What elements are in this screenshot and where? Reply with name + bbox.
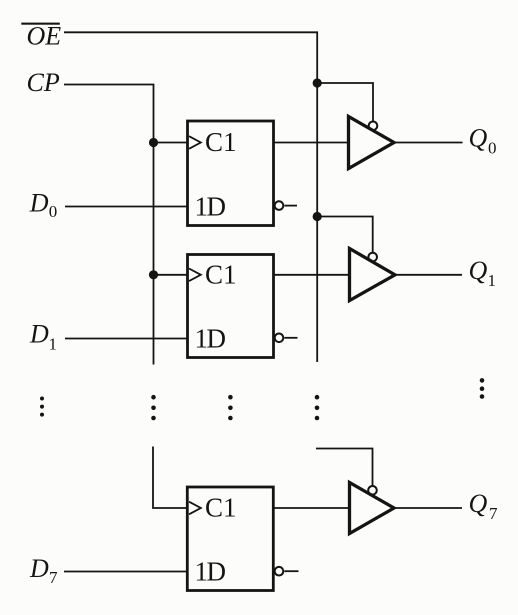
buffer U0 enable bubble — [369, 122, 378, 131]
svg-text:D: D — [29, 554, 49, 583]
wire OE horizontal+vertical — [64, 32, 317, 362]
svg-text:Q: Q — [469, 489, 488, 518]
net D1 label — [29, 320, 57, 354]
wire clock tap to FF1 — [154, 274, 188, 276]
svg-text:7: 7 — [489, 504, 498, 523]
ellipsis column left of D labels — [40, 397, 44, 417]
svg-text:C1: C1 — [205, 259, 237, 289]
net D0 label — [29, 189, 58, 222]
net Q7 label — [469, 489, 499, 523]
ellipsis column OE line — [315, 395, 320, 420]
wire D0 input — [65, 206, 187, 208]
net CP label — [27, 68, 60, 97]
node junction CP-FF1 — [149, 270, 158, 279]
svg-text:D: D — [207, 556, 227, 586]
FF0 label C1 — [205, 127, 237, 157]
tri-state buffer U1 — [350, 249, 396, 301]
node junction OE-buffer0 — [313, 78, 322, 87]
ellipsis column CP line — [151, 395, 156, 420]
wire Q7 output — [394, 507, 462, 509]
wire FF0 Q output — [274, 142, 348, 144]
wire FF1 Q output — [274, 274, 349, 276]
svg-text:D: D — [207, 192, 227, 222]
wire Q0 output — [394, 142, 463, 144]
FF7 clock input triangle — [189, 502, 201, 515]
svg-text:7: 7 — [49, 568, 58, 587]
FF1 inverted output stub — [284, 337, 297, 339]
buffer U1 enable bubble — [368, 253, 377, 262]
FF1 clock input triangle — [189, 269, 201, 282]
node junction CP-FF0 — [149, 138, 158, 147]
svg-text:D: D — [29, 320, 49, 349]
tri-state buffer U7 — [350, 483, 395, 534]
svg-text:0: 0 — [488, 139, 497, 158]
buffer U7 enable bubble — [368, 486, 377, 495]
svg-text:C1: C1 — [205, 493, 237, 523]
svg-text:Q: Q — [469, 256, 488, 285]
net Q1 label — [469, 256, 497, 290]
flip-flop FF0 box — [188, 121, 274, 226]
FF7 inverted output bubble — [275, 567, 284, 576]
svg-text:0: 0 — [49, 202, 58, 221]
ellipsis column Q outputs — [480, 378, 485, 399]
flip-flop FF7 box — [187, 487, 273, 591]
node junction OE-buffer1 — [313, 212, 322, 221]
FF7 label 1D — [195, 556, 227, 586]
tri-state buffer U0 — [349, 117, 395, 169]
ellipsis column FF middle — [228, 395, 233, 420]
FF0 clock input triangle — [189, 136, 201, 149]
svg-text:1: 1 — [488, 271, 497, 290]
FF7 label C1 — [205, 493, 237, 523]
svg-text:OE: OE — [27, 22, 62, 51]
FF0 inverted output bubble — [275, 201, 284, 210]
wire D1 input — [65, 338, 187, 340]
wire Q1 output — [395, 274, 462, 276]
net OE-bar label — [21, 22, 61, 51]
svg-text:Q: Q — [469, 124, 488, 153]
svg-text:D: D — [29, 189, 49, 218]
wire D7 input — [64, 571, 187, 573]
wire FF7 Q output — [274, 507, 349, 509]
FF7 inverted output stub — [284, 570, 298, 572]
wire enable buffer0 — [317, 83, 373, 121]
net D7 label — [29, 554, 58, 587]
wire enable buffer7 — [316, 449, 373, 487]
FF0 label 1D — [195, 192, 227, 222]
FF1 label 1D — [195, 324, 227, 354]
FF1 inverted output bubble — [275, 334, 284, 343]
flip-flop FF1 box — [188, 255, 274, 358]
wire enable buffer1 — [317, 217, 373, 253]
svg-text:D: D — [207, 324, 227, 354]
wire CP to FF7 clock — [153, 447, 187, 509]
svg-text:CP: CP — [27, 68, 60, 97]
net Q0 label — [469, 124, 497, 158]
svg-text:C1: C1 — [205, 127, 237, 157]
wire CP horizontal+vertical — [64, 85, 154, 365]
FF0 inverted output stub — [284, 205, 297, 207]
FF1 label C1 — [205, 259, 237, 289]
wire clock tap to FF0 — [154, 142, 188, 144]
svg-text:1: 1 — [49, 335, 58, 354]
